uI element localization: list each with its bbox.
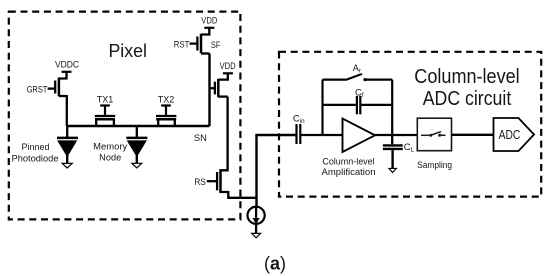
- wire Cin to amplifier input: [301, 134, 343, 136]
- transistor TX1: [95, 106, 115, 127]
- transistor GRST: [48, 72, 67, 96]
- svg-text:(a): (a): [264, 254, 286, 274]
- wire SN riser (main line up to RST source / SF gate): [208, 54, 210, 127]
- capacitor Cin: [297, 124, 301, 144]
- wire amplifier output to sampling: [375, 134, 417, 136]
- wire main diffusion line (photodiode node to SN corner): [67, 125, 210, 127]
- transistor RS: [207, 169, 221, 193]
- wire feedback right riser: [391, 80, 393, 135]
- ground arrow below current source: [252, 224, 261, 238]
- svg-text:VDDC: VDDC: [55, 60, 80, 70]
- svg-text:Memory: Memory: [93, 141, 128, 151]
- wire sampling to ADC: [452, 134, 494, 136]
- current source Ibias: [248, 207, 265, 225]
- wire feedback left riser: [321, 80, 323, 135]
- svg-text:Pixel: Pixel: [108, 40, 147, 61]
- svg-text:TX1: TX1: [97, 95, 114, 105]
- transistor RST: [190, 28, 210, 54]
- power VDD (RST drain): [201, 15, 217, 27]
- svg-text:VDD: VDD: [201, 15, 217, 25]
- wire RS source to column node: [221, 192, 257, 198]
- svg-text:ADC: ADC: [499, 127, 521, 142]
- svg-text:Column-level: Column-level: [414, 65, 519, 88]
- capacitor Cf (feedback): [323, 96, 393, 114]
- pixel boundary dashed box: [9, 12, 241, 220]
- svg-text:Amplification: Amplification: [322, 167, 376, 177]
- wire GRST source down to photodiode node: [66, 95, 68, 126]
- ground arrow below photodiode: [62, 155, 72, 168]
- power VDD (SF drain): [220, 61, 236, 73]
- svg-text:Photodiode: Photodiode: [12, 153, 59, 163]
- svg-text:Column-level: Column-level: [322, 156, 374, 166]
- transistor SF (source follower): [210, 73, 228, 97]
- transistor TX2: [156, 106, 176, 127]
- svg-text:VDD: VDD: [220, 61, 236, 71]
- ADC block: [494, 118, 535, 151]
- svg-text:RS: RS: [194, 177, 205, 187]
- ground arrow below memory node: [132, 155, 142, 168]
- ground arrow below CL: [389, 168, 396, 172]
- svg-text:SF: SF: [211, 40, 221, 50]
- svg-text:SN: SN: [194, 133, 207, 143]
- svg-text:Node: Node: [99, 153, 121, 163]
- svg-text:TX2: TX2: [158, 95, 175, 105]
- diode memory node: [126, 126, 147, 156]
- wire SF source down to RS drain: [221, 97, 228, 171]
- sampling switch box S1: [417, 118, 451, 151]
- svg-text:Pinned: Pinned: [22, 142, 50, 152]
- svg-text:Sampling: Sampling: [417, 160, 452, 170]
- capacitor CL (load): [383, 135, 403, 169]
- power VDDC: [55, 60, 80, 72]
- photodiode PD (pinned photodiode): [57, 126, 78, 156]
- wire column line (corner to current source and to Cin): [257, 135, 297, 207]
- svg-text:ADC circuit: ADC circuit: [423, 87, 512, 110]
- switch Ar (amplifier reset switch): [323, 74, 393, 81]
- op-amp U1 column amplifier: [343, 119, 376, 153]
- svg-text:RST: RST: [174, 39, 190, 49]
- ADC boundary dashed box: [279, 52, 541, 197]
- svg-text:GRST: GRST: [27, 84, 48, 94]
